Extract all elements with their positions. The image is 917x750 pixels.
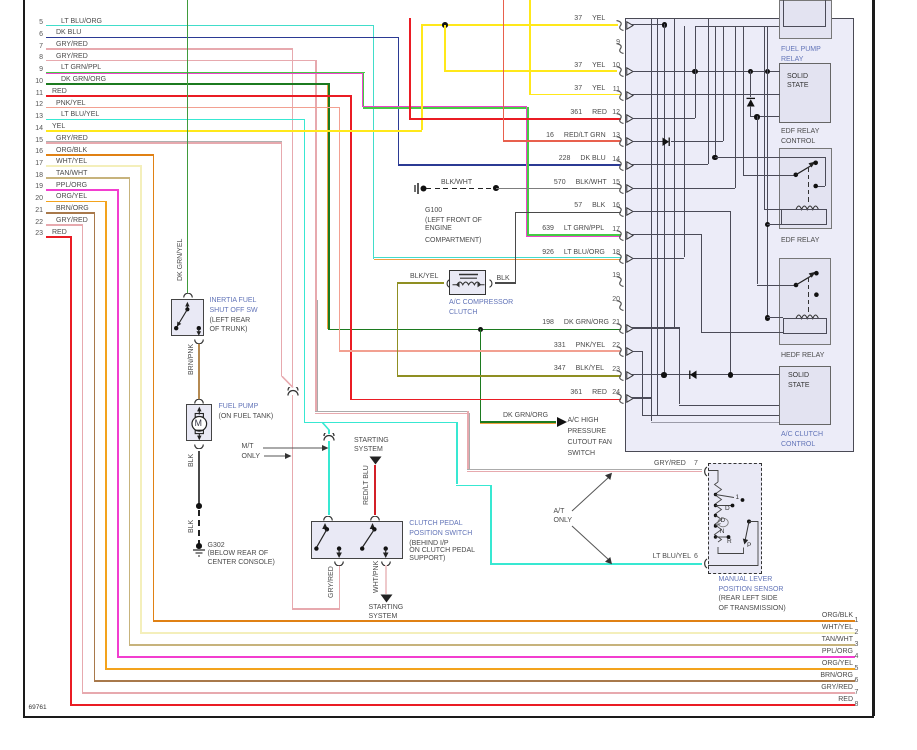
- wire RED from top x409: [409, 18, 411, 119]
- pin 21 number: [30, 207, 43, 214]
- wire name DK GRN/ORG: [564, 319, 609, 326]
- right pin 23 connector symbol: [616, 370, 625, 381]
- wire label ORG/YEL pin 20: [56, 193, 87, 200]
- bottom label WHT/YEL 2: [750, 624, 853, 631]
- pin 8 triangle: [626, 21, 634, 30]
- wire LT BLU/YEL branch to clutch switch: [328, 441, 330, 516]
- wire YEL vertical x421 up: [421, 24, 423, 130]
- wire BRN/PNK inertia to fuel pump: [198, 344, 200, 400]
- label GRY/RED 7 at MLPS: [654, 460, 686, 467]
- wire GRY/RED pin8 horizontal: [46, 60, 317, 62]
- bottom label ORG/BLK 1: [750, 612, 853, 619]
- pin 16 triangle: [626, 207, 634, 216]
- connector arc right of compressor clutch: [488, 279, 495, 288]
- label BLK/WHT at G100: [441, 179, 472, 186]
- dot pin10 x695: [692, 69, 697, 74]
- fuel pump motor symbol: [185, 404, 214, 442]
- bus x664 pin8 to pin23: [664, 24, 665, 374]
- wire RED/LT GRN from top x503: [503, 0, 505, 140]
- EDF relay common feed y175: [743, 175, 796, 176]
- wire pin16 bottom horizontal to right: [153, 620, 855, 622]
- right pin 13 connector symbol: [616, 136, 625, 147]
- pin 12 triangle: [626, 114, 634, 123]
- arrow ONLY to LT BLU/YEL wire: [570, 524, 616, 566]
- bus x743: [743, 26, 744, 174]
- value 198: [512, 319, 554, 326]
- bottom pin number 8: [855, 701, 859, 708]
- wire LT BLU/ORG pin5 horizontal: [46, 25, 374, 27]
- right pin 19 connector symbol: [616, 276, 625, 287]
- right pin 14 number: [607, 156, 620, 163]
- wire 570 BLK/WHT to pin15: [496, 188, 621, 190]
- EDF relay coil: [795, 201, 821, 211]
- wire pin21 vertical x93.5: [94, 212, 96, 680]
- EDF relay contacts: [779, 148, 833, 230]
- right pin 15 number: [607, 179, 620, 186]
- wire LT BLU/ORG vertical x373: [373, 25, 375, 259]
- wire 926 LT BLU/ORG to pin18: [373, 257, 621, 259]
- label STARTING SYSTEM upper: [354, 437, 389, 444]
- ground G302 symbol: [192, 548, 207, 558]
- wire GRY/RED to MLPS pin7: [467, 471, 702, 473]
- line y405 to solid state 2: [679, 405, 779, 406]
- MLPS position 1: [736, 495, 740, 502]
- pin 15 number: [30, 137, 43, 144]
- value 926: [512, 249, 554, 256]
- clutch pedal position switch box: [311, 521, 402, 558]
- solid state box 1: [779, 63, 831, 122]
- wire name BLK: [592, 202, 605, 209]
- wire LT BLU/ORG orange stripe: [374, 259, 621, 260]
- rotated label BLK upper: [188, 454, 195, 467]
- rotated label GRY/RED below clutch switch: [328, 566, 335, 598]
- value 361: [540, 109, 582, 116]
- dot x757 y116: [754, 114, 759, 119]
- bus x764: [764, 26, 765, 209]
- wire WHT/PNK below clutch switch: [385, 565, 387, 594]
- pin18 internal line: [632, 258, 684, 259]
- bus x767: [767, 26, 768, 317]
- rotated label BLK lower: [188, 520, 195, 533]
- arrow A/T to GRY/RED wire: [570, 471, 616, 513]
- value 37: [540, 62, 582, 69]
- pin 17 number: [30, 160, 43, 167]
- wire pin18 vertical x128.5: [129, 177, 131, 644]
- wire name YEL: [592, 62, 605, 69]
- wire pin23 horizontal: [46, 236, 72, 238]
- wire pin18 bottom horizontal to right: [129, 644, 856, 646]
- wire LT BLU/YEL branch down: [328, 430, 330, 434]
- dot x767 y318: [765, 315, 770, 320]
- triangle from starting system: [369, 456, 382, 465]
- wire LT BLU/YEL vertical x457: [456, 422, 458, 485]
- bottom label PPL/ORG 4: [750, 648, 853, 655]
- right pin 9 connector symbol: [616, 43, 625, 54]
- wire pin19 bottom horizontal to right: [117, 656, 855, 658]
- bus x723: [723, 26, 724, 140]
- dot pin23 x730: [728, 372, 733, 377]
- wire pin16 vertical x152.6: [153, 154, 155, 621]
- wire DK GRN/ORG to A/C fan switch arrow: [480, 421, 557, 423]
- label INERTIA FUEL SHUT OFF SW: [210, 297, 257, 304]
- label CLUTCH PEDAL POSITION SWITCH: [409, 520, 462, 527]
- bus x684: [684, 26, 685, 257]
- wire DK GRN/YEL from top to inertia switch: [187, 0, 189, 293]
- bus x735: [735, 26, 736, 187]
- right pin 10 connector symbol: [616, 66, 625, 77]
- bottom pin number 2: [855, 629, 859, 636]
- ground G302 dot: [196, 543, 202, 549]
- HEDF common feed y285: [757, 285, 796, 286]
- pin 18 number: [30, 172, 43, 179]
- wire LT GRN/PPL vertical magenta x526: [526, 106, 527, 237]
- value 37: [540, 15, 582, 22]
- bus x750 upper: [750, 71, 751, 97]
- wire 37 YEL to pin8: [421, 24, 618, 26]
- value 639: [512, 225, 554, 232]
- wire PNK/YEL pin12 horizontal: [46, 107, 340, 109]
- junction dot BLK/WHT: [493, 185, 499, 191]
- wire YEL branch down x445: [444, 25, 446, 71]
- wire DK GRN/ORG vertical x328: [328, 83, 330, 329]
- label BLK: [497, 275, 510, 282]
- diagram number 69761: [29, 705, 47, 712]
- label M/T ONLY: [242, 443, 254, 450]
- wire pin22 vertical x81.8: [82, 224, 84, 692]
- pin23 internal line: [632, 374, 779, 375]
- label SOLID STATE 1: [787, 73, 808, 80]
- right pin 12 number: [607, 109, 620, 116]
- wire label GRY/RED pin 8: [56, 53, 88, 60]
- EDF coil feed y209: [764, 209, 782, 210]
- right pin 20 connector symbol: [616, 300, 625, 311]
- page border left: [23, 0, 25, 717]
- connector arc below inertia switch: [194, 339, 204, 344]
- wire 331 PNK/YEL to pin22: [339, 350, 621, 352]
- wire name BLK/YEL: [576, 365, 604, 372]
- right pin 10 number: [607, 62, 620, 69]
- label G100: [425, 207, 442, 214]
- pin 13 triangle: [626, 137, 634, 146]
- rotated label BRN/PNK: [188, 344, 195, 375]
- wire 228 DK BLU to pin14: [398, 164, 622, 166]
- wire pin21 bottom horizontal to right: [94, 680, 856, 682]
- junction dot BLK: [196, 503, 202, 509]
- manual lever position sensor dashed box: [708, 463, 762, 574]
- EDF relay NC feed: [816, 186, 825, 187]
- pin 6 number: [30, 31, 43, 38]
- wire label WHT/YEL pin 17: [56, 158, 87, 165]
- CCRM big box: [625, 18, 854, 453]
- HEDF relay coil box: [783, 318, 827, 334]
- wire GRY/RED pin7 horizontal: [46, 48, 293, 50]
- value 331: [524, 342, 566, 349]
- bottom pin number 6: [855, 677, 859, 684]
- pin 20 number: [30, 195, 43, 202]
- pin22 internal line: [632, 351, 642, 352]
- pin16 internal line: [632, 211, 730, 212]
- wire label RED pin 11: [52, 88, 67, 95]
- HEDF coil bottom feed y332: [701, 332, 784, 333]
- wire BLK/YEL to compressor clutch: [398, 282, 444, 284]
- wire label GRY/RED pin 15: [56, 135, 88, 142]
- wire 347 BLK/YEL to pin23: [397, 375, 621, 377]
- connector arc below clutch switch right: [381, 561, 391, 566]
- right pin 21 number: [607, 319, 620, 326]
- right pin 11 number: [607, 86, 620, 93]
- right pin 14 connector symbol: [616, 160, 625, 171]
- inertia fuel shut off switch box: [171, 299, 204, 336]
- wire GRY/RED pin15 horizontal: [46, 142, 282, 144]
- right pin 11 connector symbol: [616, 90, 625, 101]
- label HEDF RELAY: [781, 352, 824, 359]
- MLPS position P: [747, 543, 751, 550]
- right pin 23 number: [607, 366, 620, 373]
- wire 57 BLK to pin16: [515, 212, 622, 214]
- value 347: [524, 365, 566, 372]
- right pin 17 connector symbol: [616, 230, 625, 241]
- pin13 line after diode: [671, 141, 724, 142]
- wire DK GRN/ORG orange stripe y423: [480, 423, 557, 424]
- wire name BLK/WHT: [576, 179, 607, 186]
- light gray line y421 to solid state 2: [651, 422, 779, 424]
- pin 23 triangle: [626, 371, 634, 380]
- label LT BLU/YEL 6 at MLPS: [625, 553, 691, 560]
- label A/C HIGH PRESSURE CUTOUT FAN SWITCH: [568, 417, 599, 424]
- junction dot DK GRN/ORG x480: [478, 327, 483, 332]
- wire pin17 bottom horizontal to right: [140, 632, 855, 634]
- wire 198 DK GRN/ORG to pin21: [328, 329, 621, 331]
- clutch switch left contacts: [311, 521, 404, 560]
- wire 37 YEL to pin11: [529, 94, 621, 96]
- diode on bus x750: [746, 97, 756, 107]
- EDF relay right feed: [825, 157, 826, 186]
- label G302: [208, 542, 225, 549]
- pin17 internal line: [632, 234, 701, 235]
- wire DK BLU vertical x398: [398, 37, 400, 164]
- wire GRY/RED horizontal y412: [315, 413, 468, 414]
- bottom label ORG/YEL 5: [750, 660, 853, 667]
- wire LT BLU/YEL to MLPS pin6: [490, 563, 702, 565]
- wire GRY/RED vertical x315: [315, 60, 317, 412]
- bus x695: [695, 26, 696, 117]
- wire 361 RED to pin24: [350, 399, 621, 401]
- bottom label BRN/ORG 6: [750, 672, 853, 679]
- bus x651: [651, 397, 652, 421]
- wire pin23 vertical x70.1: [70, 236, 72, 704]
- value 57: [540, 202, 582, 209]
- wire RED/LT BLU to clutch switch: [374, 465, 376, 516]
- pin10 internal line: [632, 71, 780, 72]
- wire LT BLU/YEL vertical x304: [304, 119, 306, 422]
- wire label LT BLU/ORG pin 5: [61, 18, 102, 25]
- dot x767 y224: [765, 222, 770, 227]
- label FUEL PUMP: [219, 403, 259, 410]
- pin 7 number: [30, 43, 43, 50]
- fuel pump M letter: [195, 419, 202, 428]
- pin 8 number: [30, 54, 43, 61]
- bottom pin number 7: [855, 689, 859, 696]
- wire GRY/RED gray stripe vertical: [317, 300, 318, 411]
- right pin 9 number: [607, 39, 620, 46]
- wire pin20 vertical x105.2: [105, 201, 107, 669]
- bus x679: [679, 327, 680, 404]
- wire DK GRN/ORG pin10 horizontal: [46, 83, 329, 85]
- wire pin17 horizontal: [46, 165, 142, 167]
- pin15 internal line: [632, 188, 735, 189]
- wire pin19 horizontal: [46, 189, 119, 191]
- MLPS position D circled: [721, 518, 726, 525]
- wire LT BLU/YEL jog: [456, 485, 491, 487]
- label STARTING SYSTEM lower: [369, 604, 404, 611]
- right pin 22 connector symbol: [616, 346, 625, 357]
- wire GRY/RED gray stripe vertical x469: [469, 413, 470, 470]
- wire LT GRN/PPL horizontal magenta y106: [362, 106, 526, 107]
- EDF relay top feed y157: [715, 157, 825, 158]
- rotated label WHT/PNK: [373, 561, 380, 593]
- wire 16 RED/LT GRN to pin13: [503, 140, 621, 142]
- pin21 internal line: [632, 327, 679, 328]
- solid state box 2: [779, 366, 831, 425]
- bus x715: [715, 26, 716, 157]
- pin 23 number: [30, 230, 43, 237]
- page border right: [872, 0, 875, 716]
- wire DK GRN/ORG orange stripe vertical: [327, 85, 328, 329]
- bottom pin number 5: [855, 665, 859, 672]
- wire GRY/RED vertical x467: [467, 411, 469, 470]
- bus x730 pin16 to pin23: [730, 211, 731, 374]
- wire GRY/RED gray stripe to MLPS: [467, 469, 702, 470]
- wire label YEL pin 14: [52, 123, 65, 130]
- label FUEL PUMP RELAY: [781, 46, 821, 53]
- EDF coil bottom feed y224: [767, 224, 781, 225]
- bus x642: [642, 351, 643, 415]
- pin 11 triangle: [626, 91, 634, 100]
- wire GRY/RED merged vertical to clutch switch: [292, 395, 294, 608]
- right pin 21 connector symbol: [616, 323, 625, 334]
- connector ( at MLPS pin 6: [701, 558, 709, 569]
- pin24 internal line: [632, 397, 651, 398]
- dot x715 y157: [712, 155, 717, 160]
- wire label RED pin 23: [52, 229, 67, 236]
- wire label ORG/BLK pin 16: [56, 147, 87, 154]
- right pin 18 number: [607, 249, 620, 256]
- label A/T ONLY: [554, 508, 565, 515]
- pin 21 triangle: [626, 324, 634, 333]
- wire pin22 bottom horizontal to right: [82, 692, 855, 694]
- HEDF relay coil: [795, 310, 821, 320]
- inline connector symbol on LT BLU/YEL: [323, 433, 335, 442]
- wire DK BLU pin6 horizontal: [46, 37, 399, 39]
- connector ( at MLPS pin 7: [701, 466, 709, 477]
- right pin 22 number: [607, 342, 620, 349]
- right pin 13 number: [607, 132, 620, 139]
- pin13 internal line: [632, 141, 663, 142]
- bus x750 lower: [750, 106, 751, 116]
- arrow to A/C high pressure cutout fan switch: [557, 417, 569, 428]
- diode on pin23 line: [687, 370, 697, 380]
- wire pin20 bottom horizontal to right: [105, 668, 855, 670]
- connector arc below clutch switch left: [334, 561, 344, 566]
- wire name LT GRN/PPL: [564, 225, 604, 232]
- wire BLK vertical x515: [515, 212, 517, 284]
- wire pin19 vertical x116.8: [117, 189, 119, 656]
- wire LT GRN/PPL pin9 magenta stripe: [46, 73, 363, 74]
- junction dot YEL x445: [442, 22, 448, 28]
- wire pin20 horizontal: [46, 201, 107, 203]
- rotated label DK GRN/YEL: [177, 239, 184, 281]
- right pin 24 number: [607, 389, 620, 396]
- wire BLK from compressor clutch: [495, 282, 516, 284]
- wire PNK/YEL vertical x339: [339, 107, 341, 350]
- pin12 internal line: [632, 118, 695, 119]
- MLPS position N: [720, 529, 725, 536]
- wire 639 LT GRN/PPL to pin17 green: [527, 234, 621, 235]
- pin11 internal line: [632, 94, 780, 95]
- wire label GRY/RED pin 22: [56, 217, 88, 224]
- bottom label TAN/WHT 3: [750, 636, 853, 643]
- wire 37 YEL to pin10: [444, 70, 617, 72]
- connector arc above clutch switch left: [323, 516, 333, 521]
- bottom label GRY/RED 7: [750, 684, 853, 691]
- wire GRY/RED diagonal merge: [281, 376, 295, 389]
- fuel pump box: [186, 404, 213, 441]
- wire GRY/RED vertical x292: [292, 48, 294, 386]
- connector arc above fuel pump: [194, 399, 204, 404]
- pin 10 triangle: [626, 67, 634, 76]
- value 228: [528, 155, 570, 162]
- wire RED vertical x350: [350, 95, 352, 399]
- wire DK GRN/ORG vertical x480 to fan switch: [480, 329, 482, 421]
- bus x757 to HEDF common: [757, 116, 758, 284]
- arrow ONLY to GRY/RED: [264, 452, 294, 460]
- wire label BRN/ORG pin 21: [56, 205, 89, 212]
- wire name RED: [592, 109, 607, 116]
- wire 361 RED to pin12: [409, 118, 621, 120]
- right pin 17 number: [607, 226, 620, 233]
- fuel pump relay box: [779, 0, 832, 39]
- inline connector symbol on GRY/RED: [287, 387, 299, 397]
- wire LT BLU/YEL pin13 horizontal: [46, 119, 305, 121]
- line y415 to solid state 2: [642, 415, 779, 416]
- wire BLK/WHT dashed from G100: [426, 188, 431, 189]
- right pin 12 connector symbol: [616, 113, 625, 124]
- pin 17 triangle: [626, 231, 634, 240]
- line y116 to solid state 1: [750, 116, 779, 117]
- wire name DK BLU: [580, 155, 605, 162]
- right pin 16 connector symbol: [616, 206, 625, 217]
- pin 14 number: [30, 125, 43, 132]
- pin 22 triangle: [626, 347, 634, 356]
- wire LT GRN/PPL vertical green x528: [527, 107, 528, 234]
- bus x650 from top: [651, 18, 652, 398]
- pin 14 triangle: [626, 161, 634, 170]
- wire label PNK/YEL pin 12: [56, 100, 86, 107]
- MLPS position D: [725, 506, 730, 513]
- label DK GRN/ORG near fan switch: [503, 412, 548, 419]
- EDF relay coil box: [781, 209, 827, 225]
- wire GRY/RED horizontal y608: [292, 608, 341, 610]
- wire GRY/RED up to clutch switch: [339, 565, 341, 608]
- wire label LT BLU/YEL pin 13: [61, 111, 99, 118]
- label EDF RELAY CONTROL: [781, 128, 819, 135]
- wire LT GRN/PPL vertical green x363: [363, 72, 364, 108]
- wire LT GRN/PPL horizontal green y107: [363, 107, 528, 108]
- pin8 internal line: [632, 24, 664, 25]
- connector arc left of compressor clutch: [444, 279, 451, 288]
- pin 24 triangle: [626, 394, 634, 403]
- pin 13 number: [30, 113, 43, 120]
